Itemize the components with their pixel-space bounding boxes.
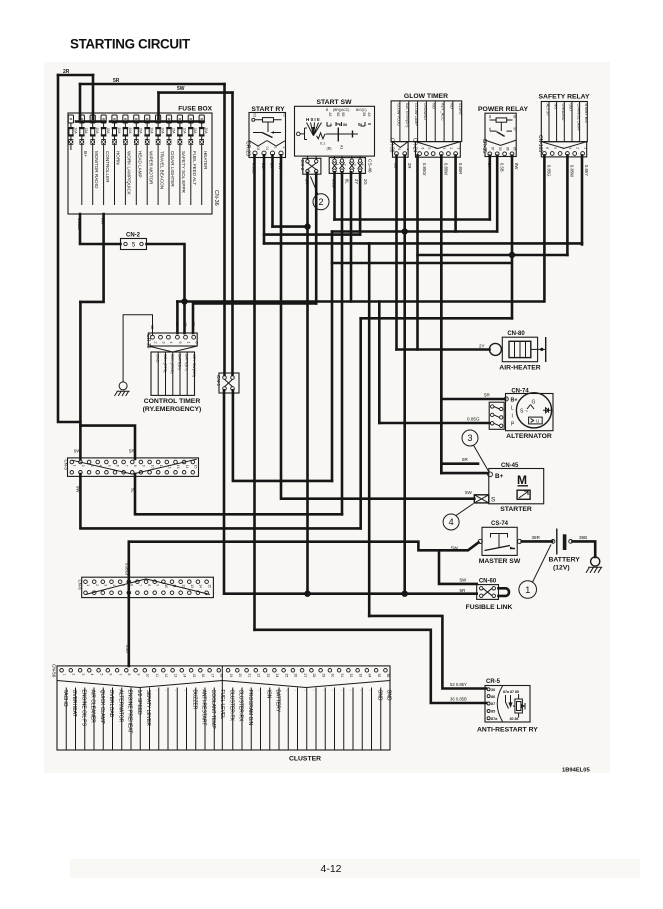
relay START RY CR-23	[245, 106, 287, 158]
callout circle 2	[311, 177, 330, 210]
svg-text:SOL.(GND): SOL.(GND)	[170, 354, 174, 374]
svg-text:COOLANT TEMP: COOLANT TEMP	[210, 690, 216, 730]
svg-text:15A: 15A	[106, 128, 110, 135]
svg-text:CR-23: CR-23	[245, 141, 251, 156]
svg-text:ANTI-RESTART RY: ANTI-RESTART RY	[477, 727, 538, 734]
svg-text:6: 6	[109, 674, 113, 676]
wire v360	[359, 318, 362, 528]
svg-text:SAFETY SOL EPPR: SAFETY SOL EPPR	[181, 151, 186, 194]
svg-text:15A: 15A	[171, 128, 175, 135]
callout circle 3	[462, 430, 489, 472]
svg-text:15A: 15A	[84, 128, 88, 135]
svg-text:TACHO: TACHO	[62, 690, 68, 707]
svg-text:CN-36: CN-36	[213, 190, 219, 206]
wire staircase to CR-5 pin30	[369, 616, 486, 689]
svg-text:3: 3	[104, 584, 108, 586]
svg-text:15: 15	[192, 674, 196, 678]
svg-text:20A: 20A	[161, 128, 165, 135]
svg-text:5W: 5W	[465, 490, 473, 495]
svg-text:BATTERY: BATTERY	[549, 557, 581, 564]
svg-text:3: 3	[568, 147, 572, 149]
svg-text:TRAVEL BEACON: TRAVEL BEACON	[159, 151, 164, 189]
svg-text:10: 10	[150, 465, 154, 469]
svg-text:0.85G: 0.85G	[467, 417, 480, 422]
svg-text:87a 87 85: 87a 87 85	[503, 690, 519, 694]
wire CN-1 right down U to CS-46 pin1	[233, 390, 332, 481]
svg-text:8Y: 8Y	[487, 163, 492, 168]
svg-text:21: 21	[247, 674, 251, 678]
svg-text:.: .	[321, 690, 327, 691]
svg-text:13: 13	[176, 465, 180, 469]
svg-text:2G: 2G	[363, 179, 368, 185]
wire CN-60 loop	[499, 588, 510, 596]
svg-text:2: 2	[343, 164, 347, 166]
wire battery to ground 38B	[573, 541, 596, 557]
svg-text:15A: 15A	[139, 128, 143, 135]
wire starter S 5W	[283, 497, 474, 500]
svg-text:2: 2	[575, 147, 579, 149]
svg-text:L: L	[511, 406, 514, 412]
svg-text:AIR CLEANER: AIR CLEANER	[90, 690, 96, 724]
svg-text:2R: 2R	[407, 163, 412, 168]
wire starter B+	[441, 472, 488, 475]
svg-text:1: 1	[273, 147, 277, 149]
svg-text:BATTERY: BATTERY	[275, 690, 281, 713]
svg-text:87: 87	[491, 702, 495, 706]
svg-text:36 0.85B: 36 0.85B	[450, 697, 467, 702]
wire CN-2 to junction	[147, 244, 185, 302]
wire starter B+ stub 5R	[441, 462, 478, 465]
wire 5R drop to fuse F2	[79, 84, 82, 119]
svg-text:B+: B+	[495, 473, 504, 480]
svg-text:CR-38: CR-38	[388, 138, 394, 153]
svg-text:85: 85	[513, 115, 517, 119]
fuse F5 HORN	[112, 115, 121, 205]
svg-text:MASTER SW: MASTER SW	[479, 558, 521, 565]
svg-text:18: 18	[220, 674, 224, 678]
wire h263	[332, 262, 510, 265]
wire to CN-80 2Y	[397, 348, 490, 351]
svg-text:7: 7	[118, 674, 122, 676]
svg-text:HEATER: HEATER	[203, 151, 208, 170]
svg-text:24: 24	[275, 674, 279, 678]
svg-text:9W: 9W	[74, 449, 81, 454]
wire h1	[273, 225, 308, 228]
svg-text:0,1: 0,1	[320, 142, 325, 146]
svg-text:2: 2	[95, 584, 99, 586]
svg-text:0.85: 0.85	[125, 645, 130, 654]
svg-text:01: 01	[265, 147, 269, 151]
svg-text:30: 30	[488, 128, 492, 132]
svg-text:GLOW PLUG: GLOW PLUG	[396, 103, 400, 126]
svg-text:25: 25	[284, 674, 288, 678]
svg-text:14: 14	[185, 465, 189, 469]
svg-text:3: 3	[161, 342, 165, 344]
svg-text:8W: 8W	[278, 163, 283, 169]
svg-text:10: 10	[146, 674, 150, 678]
wire CN-3 pin8 bottom 5L to h15	[135, 474, 342, 514]
svg-text:STARTER: STARTER	[500, 506, 532, 513]
svg-text:2: 2	[282, 147, 286, 149]
svg-text:15: 15	[193, 465, 197, 469]
svg-text:23: 23	[266, 674, 270, 678]
svg-text:.: .	[293, 690, 299, 691]
svg-text:6: 6	[116, 465, 120, 467]
control timer CR-79	[143, 333, 202, 413]
svg-text:8: 8	[133, 465, 137, 467]
fuse bus bar B	[110, 120, 204, 123]
wire 2R left long vertical	[58, 75, 80, 422]
svg-text:30 86: 30 86	[510, 717, 519, 721]
wire SR pin6 0.85G	[543, 155, 546, 301]
svg-text:8W: 8W	[101, 218, 106, 224]
svg-text:HEAD LAMP: HEAD LAMP	[138, 151, 143, 178]
connector CN-3	[64, 458, 199, 477]
svg-text:BATT(B-): BATT(B-)	[177, 354, 181, 370]
svg-text:1: 1	[86, 584, 90, 586]
callout circle 4	[443, 504, 473, 531]
svg-text:2R: 2R	[183, 322, 187, 327]
svg-text:3: 3	[352, 164, 356, 166]
svg-text:.: .	[284, 690, 290, 691]
svg-text:.: .	[312, 690, 318, 691]
wire CR-24 pin1 0.85R	[454, 156, 457, 232]
svg-text:0.85Y: 0.85Y	[584, 165, 589, 176]
svg-text:CN-3: CN-3	[64, 460, 69, 471]
svg-text:START SW: START SW	[317, 99, 353, 106]
svg-text:5W: 5W	[177, 86, 185, 92]
svg-text:35: 35	[377, 674, 381, 678]
battery 12V	[549, 529, 581, 572]
svg-text:STARTING CIRCUIT: STARTING CIRCUIT	[70, 37, 191, 52]
wire v369 staircase	[368, 243, 371, 616]
svg-text:4: 4	[434, 148, 438, 150]
svg-text:~: ~	[525, 409, 528, 415]
svg-text:20: 20	[238, 674, 242, 678]
wire 5W long vertical to CN-1	[231, 93, 234, 375]
connector CS-2	[299, 156, 321, 174]
fuse F10 CIGAR LIGHTER	[166, 115, 175, 205]
svg-text:87: 87	[513, 128, 517, 132]
svg-text:CN-1: CN-1	[215, 375, 221, 387]
svg-text:6: 6	[420, 148, 424, 150]
fuse F3 MONITOR RADIO	[90, 115, 99, 205]
svg-text:ALTERNATOR: ALTERNATOR	[117, 690, 123, 723]
svg-text:11: 11	[155, 674, 159, 678]
wire SR pin1 0.85Y	[581, 155, 584, 244]
connector CN-165	[537, 135, 587, 157]
svg-text:H 0 I II: H 0 I II	[306, 117, 320, 122]
svg-text:5R: 5R	[462, 457, 469, 462]
svg-text:3: 3	[81, 674, 85, 676]
svg-text:GND: GND	[156, 354, 160, 363]
svg-text:GLOW TIMER: GLOW TIMER	[404, 93, 448, 100]
svg-text:9: 9	[142, 465, 146, 467]
svg-text:30: 30	[491, 688, 495, 692]
svg-text:32: 32	[349, 674, 353, 678]
svg-text:1/2 SPEED: 1/2 SPEED	[136, 690, 142, 716]
wire 2R drop to fuse F3	[92, 75, 95, 119]
svg-text:NO: NO	[432, 103, 436, 109]
svg-text:CN-2: CN-2	[126, 233, 141, 239]
air heater CN-80	[489, 331, 545, 372]
svg-text:20A: 20A	[95, 128, 99, 135]
svg-text:B2: B2	[336, 113, 340, 117]
svg-text:3: 3	[467, 433, 472, 443]
svg-text:26: 26	[294, 674, 298, 678]
svg-text:5: 5	[553, 147, 557, 149]
svg-text:CLUSTER-TX: CLUSTER-TX	[228, 690, 234, 722]
svg-text:.: .	[256, 690, 262, 691]
wire h8 power relay 85 run	[361, 317, 512, 320]
svg-text:SAFETY RELAY: SAFETY RELAY	[539, 94, 590, 101]
svg-text:PROGRAM D/N: PROGRAM D/N	[247, 690, 253, 726]
svg-text:0.85Gr: 0.85Gr	[422, 163, 427, 176]
fusible link CN-60	[466, 579, 513, 612]
wire CR-38 pin4 2R	[403, 156, 406, 594]
wire START RY pin03 0.85L	[253, 155, 256, 630]
svg-text:7: 7	[124, 465, 128, 467]
svg-text:G: G	[532, 400, 536, 406]
svg-text:15: 15	[207, 584, 211, 588]
svg-text:2Y: 2Y	[479, 344, 485, 349]
svg-text:CN-6: CN-6	[78, 580, 83, 591]
starter CN-45	[474, 463, 543, 513]
svg-text:86: 86	[491, 695, 495, 699]
svg-text:5R: 5R	[270, 163, 275, 168]
svg-text:(BR)(ACC): (BR)(ACC)	[333, 108, 349, 112]
wire CS-46 pin3 2Y	[350, 172, 353, 301]
svg-text:5W: 5W	[460, 578, 468, 583]
glow timer box	[391, 93, 462, 142]
svg-text:8W: 8W	[514, 163, 519, 169]
svg-text:6: 6	[545, 147, 549, 149]
svg-text:14: 14	[183, 674, 187, 678]
wire PR pin87 8Y	[488, 156, 491, 220]
svg-text:KEY_ACC: KEY_ACC	[440, 103, 444, 121]
svg-text:5R: 5R	[484, 393, 491, 398]
fuse F11 SAFETY SOL EPPR	[177, 115, 186, 205]
svg-text:I: I	[512, 414, 513, 420]
wire CR-38 pin6 2B	[395, 156, 398, 350]
svg-text:6: 6	[195, 342, 199, 344]
svg-text:B/G(C): B/G(C)	[356, 108, 367, 112]
fuse F12 FUEL FEED ALT	[188, 115, 197, 205]
fuse F7 HEAD LAMP	[134, 115, 143, 205]
wire CS-46 pin4 2G	[359, 172, 362, 234]
svg-text:1: 1	[583, 147, 587, 149]
svg-text:22: 22	[257, 674, 261, 678]
svg-text:START B/S: START B/S	[584, 104, 588, 124]
svg-text:POWER RELAY: POWER RELAY	[478, 106, 528, 113]
svg-text:CS-46: CS-46	[366, 159, 372, 173]
wire CN-3 pin2 bottom 9W to h16	[80, 474, 360, 528]
svg-text:GND: GND	[386, 690, 392, 702]
svg-text:S: S	[491, 497, 495, 504]
svg-text:.: .	[154, 690, 160, 691]
wire 5W drop to fuse F9	[157, 93, 160, 119]
svg-text:0.85G: 0.85G	[547, 165, 552, 176]
svg-text:5W: 5W	[451, 546, 459, 551]
svg-text:START: START	[458, 103, 462, 116]
svg-text:.: .	[164, 690, 170, 691]
wire PR pin30 0.5B	[496, 156, 499, 232]
svg-text:.: .	[330, 690, 336, 691]
svg-text:20A: 20A	[73, 128, 77, 135]
svg-text:B+: B+	[511, 398, 518, 404]
connector CN-2	[121, 233, 147, 250]
svg-text:2R: 2R	[175, 322, 179, 327]
svg-text:1B94EL05: 1B94EL05	[562, 768, 590, 774]
wire h3	[264, 233, 360, 236]
svg-text:1V: 1V	[191, 322, 195, 327]
wire 2R horizontal	[58, 74, 93, 77]
svg-text:.: .	[349, 690, 355, 691]
svg-text:6: 6	[129, 584, 133, 586]
svg-text:A1: A1	[340, 145, 344, 149]
wire START RY pin1 5R	[271, 155, 274, 226]
svg-text:13: 13	[190, 584, 194, 588]
wire CR-79 pin2 to ground	[123, 315, 152, 382]
svg-text:.: .	[173, 690, 179, 691]
svg-text:BUZZER: BUZZER	[191, 690, 197, 710]
svg-text:8L: 8L	[345, 179, 350, 184]
connector CR-38	[388, 138, 409, 157]
svg-text:1: 1	[335, 164, 339, 166]
svg-text:87: 87	[491, 147, 495, 151]
svg-text:NO: NO	[449, 103, 453, 109]
svg-text:CHARGE LAMP: CHARGE LAMP	[576, 104, 580, 132]
fuse F6 WORK LAMP/QUICK	[123, 115, 132, 205]
svg-text:BATT(B+): BATT(B+)	[185, 354, 189, 371]
svg-text:52 0.85Y: 52 0.85Y	[450, 682, 467, 687]
svg-text:QUICK CLAMP: QUICK CLAMP	[99, 690, 105, 725]
svg-text:.: .	[367, 690, 373, 691]
svg-text:SOL.(ETS): SOL.(ETS)	[163, 354, 167, 373]
svg-text:86: 86	[488, 115, 492, 119]
svg-text:2: 2	[153, 342, 157, 344]
svg-text:CN-60: CN-60	[479, 579, 497, 585]
wire h7	[193, 303, 316, 333]
svg-text:0.5B: 0.5B	[500, 163, 505, 172]
svg-text:1.25Br: 1.25Br	[77, 218, 82, 231]
svg-text:6: 6	[397, 149, 401, 151]
svg-text:4: 4	[449, 517, 454, 527]
svg-text:ALTERNATOR: ALTERNATOR	[506, 433, 552, 440]
svg-text:ANTI-RESTART: ANTI-RESTART	[201, 690, 207, 726]
wire CS-46 pin1 5/2B	[333, 172, 336, 219]
svg-text:20A: 20A	[128, 128, 132, 135]
svg-text:SEFATY LEVER: SEFATY LEVER	[145, 690, 151, 727]
junction dot	[304, 223, 310, 229]
svg-text:0.85Gr: 0.85Gr	[125, 563, 130, 576]
svg-text:03: 03	[256, 147, 260, 151]
svg-text:85: 85	[491, 710, 495, 714]
svg-text:GROUND: GROUND	[561, 104, 565, 121]
svg-text:36: 36	[386, 674, 390, 678]
svg-text:WORK LAMP/QUICK: WORK LAMP/QUICK	[127, 151, 132, 196]
svg-text:2: 2	[72, 674, 76, 676]
ground symbol battery	[586, 557, 602, 573]
junction dot h5	[509, 252, 515, 258]
svg-text:85: 85	[513, 147, 517, 151]
wire CS-2 pin1 5R	[306, 173, 309, 594]
wire CN-1 U riser	[331, 232, 334, 481]
svg-text:9: 9	[155, 584, 159, 586]
svg-text:.: .	[302, 690, 308, 691]
svg-text:28: 28	[312, 674, 316, 678]
wire CS-2 pin2	[315, 173, 318, 304]
svg-text:4-12: 4-12	[320, 863, 341, 875]
switch START SW	[295, 99, 375, 156]
svg-text:5: 5	[178, 342, 182, 344]
svg-text:GROUND: GROUND	[423, 103, 427, 120]
svg-text:ALT 2P: ALT 2P	[546, 104, 550, 117]
svg-text:START RY: START RY	[251, 106, 285, 113]
svg-text:15A: 15A	[193, 128, 197, 135]
wire CN-1 left down to 5R net	[224, 390, 477, 593]
svg-text:GND: GND	[376, 690, 382, 702]
svg-text:B3: B3	[341, 113, 345, 117]
svg-text:NO: NO	[553, 104, 557, 110]
svg-text:4: 4	[169, 342, 173, 344]
svg-text:B+: B+	[83, 151, 88, 157]
svg-text:CLUSTER: CLUSTER	[289, 756, 321, 763]
svg-text:1: 1	[186, 342, 190, 344]
svg-text:CIGAR LIGHTER: CIGAR LIGHTER	[170, 151, 175, 187]
svg-text:38B: 38B	[579, 535, 587, 540]
svg-text:AIR-HEATER: AIR-HEATER	[499, 365, 540, 372]
svg-text:5R: 5R	[305, 179, 310, 184]
fuse F1 (spare)	[68, 115, 77, 150]
connector CN-1	[215, 373, 239, 393]
svg-text:CN-165: CN-165	[537, 135, 543, 152]
junction dots on 5R bottom run	[304, 591, 310, 597]
wire START RY pin2 8W	[280, 155, 283, 498]
svg-text:87a: 87a	[491, 717, 498, 721]
svg-text:0.85L: 0.85L	[252, 163, 257, 174]
wire PR pin85 8W	[511, 156, 514, 319]
fuse F2 B+	[79, 115, 88, 205]
wire 8W from fuse F4	[80, 214, 103, 302]
connector CN-6	[78, 577, 214, 597]
svg-text:.: .	[182, 690, 188, 691]
svg-text:CR-5: CR-5	[486, 679, 501, 685]
fuse F13 HEATER	[199, 115, 208, 205]
svg-text:17: 17	[210, 674, 214, 678]
svg-text:1: 1	[456, 148, 460, 150]
relay POWER RELAY CR-35	[478, 106, 528, 157]
wire CS-46 pin2 8L	[341, 172, 344, 514]
svg-text:(RY.EMERGENCY): (RY.EMERGENCY)	[143, 406, 202, 413]
svg-text:(B): (B)	[327, 147, 333, 151]
svg-text:U: U	[536, 419, 539, 424]
junction dot h231	[402, 228, 408, 234]
safety relay box	[539, 94, 590, 142]
svg-text:2: 2	[449, 148, 453, 150]
svg-text:29: 29	[321, 674, 325, 678]
svg-text:7: 7	[138, 584, 142, 586]
wire CN-6 drop to cluster 0.85Gr	[128, 542, 131, 666]
svg-text:CR-35: CR-35	[481, 139, 487, 154]
svg-text:OUT: OUT	[569, 104, 573, 113]
wire CR-79 pin1 stub	[183, 302, 186, 334]
svg-text:WIPER MOTOR: WIPER MOTOR	[148, 151, 153, 185]
svg-text:0.85W: 0.85W	[444, 163, 449, 175]
svg-text:4: 4	[561, 147, 565, 149]
wire START RY pin01 2G	[263, 155, 266, 243]
junction dot h6	[181, 298, 187, 304]
